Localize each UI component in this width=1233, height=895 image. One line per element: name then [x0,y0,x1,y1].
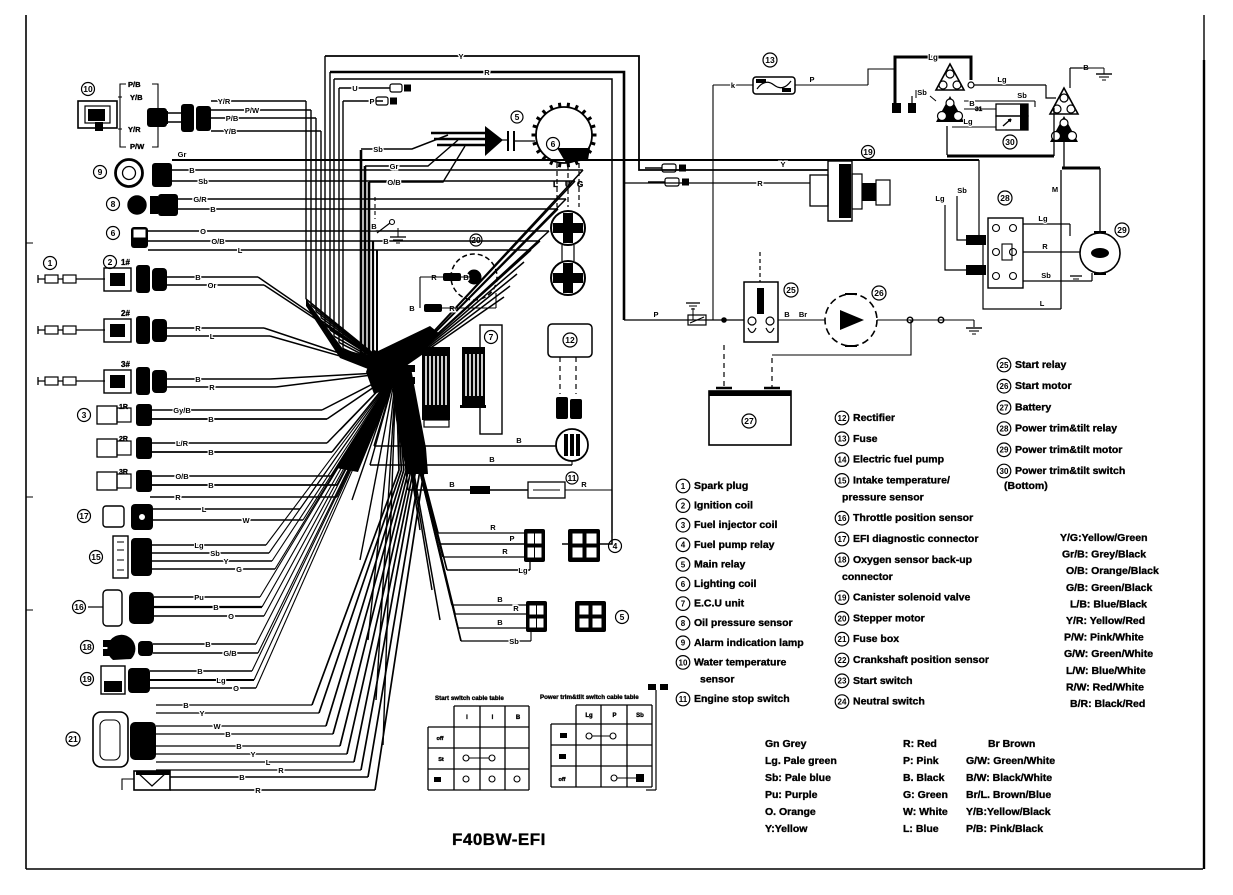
svg-text:18: 18 [838,556,847,565]
wire Lg 15 [152,372,396,550]
svg-text:Ignition coil: Ignition coil [694,500,753,512]
svg-text:Crankshaft position sensor: Crankshaft position sensor [853,654,989,666]
svg-text:P/W: P/W [245,106,260,115]
PTT switch triangle A [936,64,964,90]
harness filler wires [340,372,440,745]
wire relay to motor [778,310,825,320]
stop switch box (11) [396,372,612,533]
intake temperature/pressure sensor (15) [90,536,153,578]
wire Sb [916,88,1035,107]
svg-text:Gr: Gr [178,150,187,159]
svg-text:R: R [278,766,284,775]
relay4 wire Lg [396,372,530,575]
Lg terminals [892,96,916,113]
svg-text:11: 11 [568,473,577,483]
harness wires of coil 1# [258,277,396,372]
svg-text:3R: 3R [119,469,128,476]
svg-text:Br Brown: Br Brown [988,738,1035,750]
svg-text:Sb: Sb [198,177,208,186]
wire Sb 15 [152,372,396,558]
svg-text:E.C.U unit: E.C.U unit [694,598,745,610]
svg-text:Gr/B: Grey/Black: Gr/B: Grey/Black [1062,549,1146,561]
svg-text:R: R [1042,242,1048,251]
svg-text:P/W: P/W [130,142,145,151]
svg-text:12: 12 [565,335,575,345]
svg-text:18: 18 [82,642,92,652]
wire B to fuel pump [374,372,556,446]
svg-text:P: Pink: P: Pink [903,755,939,767]
svg-text:Br/L. Brown/Blue: Br/L. Brown/Blue [966,789,1051,801]
fuse box wire B y746 [156,370,409,751]
svg-text:G/B: G/B [223,649,237,658]
svg-text:L/R: L/R [176,439,189,448]
svg-text:Gn Grey: Gn Grey [765,738,807,750]
svg-text:P/B: Pink/Black: P/B: Pink/Black [966,823,1043,835]
svg-text:B/R: Black/Red: B/R: Black/Red [1070,698,1145,710]
svg-text:W: White: W: White [903,806,948,818]
injector wire B [152,481,337,490]
relay5 wire R [396,372,526,614]
rectifier output dashes [560,357,576,394]
svg-text:Lighting coil: Lighting coil [694,578,756,590]
svg-text:Y: Y [780,160,785,169]
battery (27) [709,345,791,445]
wire Y 15 [152,372,396,566]
fuse box wire R y770 [156,370,416,775]
svg-text:1: 1 [48,258,53,268]
injector harness wires [327,372,396,452]
fuse box wire W y726 [156,370,404,731]
engine stop switch symbol [371,197,406,246]
svg-text:B: B [197,667,203,676]
fuse box wire B y734 [156,370,406,739]
label R-B row [420,273,474,308]
svg-text:31: 31 [975,106,983,113]
svg-text:Stepper motor: Stepper motor [853,612,925,624]
harness wires of coil 3# [270,372,396,387]
svg-text:L: L [238,246,243,255]
relay5 wire B b [396,372,526,628]
diagnostic pin U [339,84,411,93]
svg-text:L: L [266,758,271,767]
svg-text:Gr: Gr [390,162,399,171]
svg-text:P: P [612,713,616,719]
svg-text:Sb: Sb [957,186,967,195]
injector label 3R [119,469,128,476]
svg-text:P/W: Pink/White: P/W: Pink/White [1064,632,1144,644]
svg-text:B: B [208,448,214,457]
harness knot [366,350,408,394]
wire motor to ground [877,317,982,334]
wire motor junction to battery [772,320,911,355]
svg-text:P/B: P/B [128,80,141,89]
svg-text:Y/R: Yellow/Red: Y/R: Yellow/Red [1066,615,1145,627]
svg-text:13: 13 [838,435,847,444]
svg-text:off: off [558,777,565,783]
svg-text:R: R [484,68,490,77]
svg-text:R: R [209,383,215,392]
wire Sb from lamp [172,177,575,372]
svg-text:B: B [516,715,521,721]
svg-text:30: 30 [1000,467,1009,476]
fuse box wire L y762 [156,370,413,767]
svg-text:O: O [228,612,234,621]
neutral switch (24) [646,684,668,790]
svg-text:O/B: O/B [211,237,225,246]
coil wire Or 1# [167,281,264,290]
svg-text:10: 10 [83,84,93,94]
svg-text:Sb: Sb [210,549,220,558]
thick Lg wire bracket [895,53,971,107]
canister solenoid valve (19) [810,146,890,222]
sensor (6) small [107,227,149,249]
svg-text:Engine stop switch: Engine stop switch [694,693,790,705]
svg-text:F40BW-EFI: F40BW-EFI [452,830,546,849]
svg-text:22: 22 [838,656,847,665]
EFI diagnostic pin B [648,178,689,186]
svg-text:I: I [466,715,468,721]
wire R to solenoid valve [624,179,810,188]
svg-text:Lg: Lg [585,713,593,719]
injector harness wires [322,372,396,419]
harness vertical bundle [306,56,396,372]
wire Y top run [325,52,828,170]
svg-text:5: 5 [681,560,686,569]
wire Gr to arrow [365,140,458,171]
svg-text:B: B [516,436,522,445]
wire B y671 [150,372,396,676]
svg-text:off: off [436,736,443,742]
svg-text:Lg: Lg [1038,214,1048,223]
svg-text:5: 5 [515,112,520,122]
power trim tilt switch cable table [540,694,652,787]
svg-text:G: G [236,565,242,574]
svg-text:Sb: Sb [917,88,927,97]
svg-text:Alarm indication lamp: Alarm indication lamp [694,637,804,649]
PTT switch triangle B black [936,96,964,122]
svg-text:Lg: Lg [935,194,945,203]
sensor y678 [81,666,151,694]
svg-text:15: 15 [838,476,847,485]
svg-text:B: B [195,375,201,384]
wires L U G from lighting coil [553,163,583,207]
arrow connector to lighting coil [485,126,503,156]
svg-text:B: B [208,481,214,490]
svg-text:B: B [189,166,195,175]
wire Sb into PTT relay [957,186,967,240]
power trim and tilt motor (29) [1070,223,1129,279]
sensor with round connector y515 [78,504,154,530]
harness wedge upper [306,299,396,380]
fuse box (21) [66,712,156,767]
svg-text:7: 7 [489,332,494,342]
svg-text:8: 8 [681,619,686,628]
svg-text:B: B [205,640,211,649]
svg-text:21: 21 [838,635,847,644]
wire Lg to PTT switch box [952,117,996,127]
capacitor and main relay label (5) [500,111,535,151]
start motor (26) [825,286,886,346]
svg-text:Y:Yellow: Y:Yellow [765,823,808,835]
svg-text:Water temperature: Water temperature [694,656,787,668]
svg-text:Start switch cable table: Start switch cable table [435,695,504,702]
svg-text:G/W: Green/White: G/W: Green/White [1064,648,1153,660]
EFI diagnostic pin A [645,164,686,172]
svg-text:Br: Br [799,310,807,319]
sensor (18) dome shaped [81,635,154,660]
svg-text:I: I [492,715,494,721]
svg-text:L: L [1040,299,1045,308]
svg-text:O: O [233,684,239,693]
svg-text:Or: Or [208,281,217,290]
svg-text:3#: 3# [121,360,130,369]
svg-text:G/W: Green/White: G/W: Green/White [966,755,1055,767]
svg-text:B: B [213,603,219,612]
svg-text:3: 3 [681,521,686,530]
start switch cable table [428,695,529,790]
svg-text:Spark plug: Spark plug [694,480,748,492]
svg-text:Y/B: Y/B [130,93,143,102]
diagnostic pin P [343,97,397,106]
svg-text:Power trim&tilt relay: Power trim&tilt relay [1015,423,1117,435]
coil wire B 1# [167,273,258,282]
svg-text:29: 29 [1117,225,1127,235]
svg-text:27: 27 [1000,403,1009,412]
svg-text:B: B [497,595,503,604]
svg-text:23: 23 [838,677,847,686]
svg-text:EFI diagnostic connector: EFI diagnostic connector [853,533,978,545]
svg-text:5: 5 [620,612,625,622]
svg-text:R: Red: R: Red [903,738,937,750]
spark plug / ignition coil 2# [38,309,167,344]
connector of water temperature sensor [168,104,211,132]
harness curtain filler wires [396,262,524,372]
svg-text:B: B [784,310,790,319]
injector wire Gy/B [152,406,322,415]
wire O/B [148,237,540,372]
fuel injector at y=480 [97,470,152,492]
svg-text:Lg: Lg [194,541,204,550]
svg-text:Lg: Lg [997,75,1007,84]
svg-text:13: 13 [765,55,775,65]
spark plug / ignition coil 1# [38,256,167,294]
svg-text:2#: 2# [121,309,130,318]
svg-text:G: Green: G: Green [903,789,948,801]
wire R single [150,372,396,502]
wire B 16 [154,372,396,612]
svg-text:R: R [490,523,496,532]
svg-text:Intake temperature/: Intake temperature/ [853,474,950,486]
power trim and tilt switch (30) [975,104,1028,149]
svg-text:7: 7 [681,599,686,608]
svg-text:P: P [509,534,514,543]
svg-text:M: M [1052,185,1058,194]
wire G 15 [152,372,396,574]
svg-text:R: R [175,493,181,502]
stator circle B [551,245,585,295]
injector wire L/R [152,439,327,448]
component list column 1 [676,479,803,706]
svg-text:Y: Y [199,709,204,718]
component list column 3 [997,358,1125,492]
svg-text:Sb: Sb [1041,271,1051,280]
svg-text:Oil pressure sensor: Oil pressure sensor [694,617,793,629]
svg-text:Sb: Sb [509,637,519,646]
svg-text:Main relay: Main relay [694,558,746,570]
svg-text:20: 20 [838,614,847,623]
component list column 2 [835,411,989,708]
svg-text:B: B [489,455,495,464]
svg-text:R: R [757,179,763,188]
svg-text:B: B [225,730,231,739]
svg-text:Y: Y [250,750,255,759]
svg-text:12: 12 [838,414,847,423]
svg-text:24: 24 [838,697,847,706]
svg-text:30: 30 [1005,137,1015,147]
sensor circle (13) [451,234,497,300]
wire Y/R from sensor 10 [211,97,306,106]
injector label 2R [119,436,128,443]
svg-text:B: B [449,480,455,489]
svg-text:19: 19 [838,593,847,602]
svg-text:B: B [208,415,214,424]
thick wire to PTT motor [1052,142,1100,309]
wire loop under PTT relay [983,245,1061,309]
relay4 wire R b [396,372,524,557]
wire Y/B from sensor 10 [211,127,321,136]
svg-text:Oxygen sensor back-up: Oxygen sensor back-up [853,554,972,566]
long wire Gr from lamp to trim relay [172,150,979,160]
svg-text:9: 9 [681,639,686,648]
svg-text:L: L [210,332,215,341]
svg-text:25: 25 [1000,361,1009,370]
svg-text:Y/G:Yellow/Green: Y/G:Yellow/Green [1060,532,1148,544]
svg-text:16: 16 [838,514,847,523]
svg-text:O/B: O/B [387,178,401,187]
svg-text:Neutral switch: Neutral switch [853,696,925,708]
svg-text:Lg. Pale green: Lg. Pale green [765,755,837,767]
svg-text:Y/B: Y/B [224,127,237,136]
svg-text:Fuse box: Fuse box [853,633,899,645]
svg-text:19: 19 [82,674,92,684]
crankshaft position sensor (22) [122,771,170,790]
svg-text:Sb: Pale blue: Sb: Pale blue [765,772,831,784]
wire Lg into PTT relay [935,194,966,270]
start circuit feed wire with fuse [624,303,744,325]
wire color legend right column [1060,532,1159,710]
fuel injector at y=447 [97,437,152,459]
svg-text:2: 2 [681,501,686,510]
wire L y509 [153,372,396,514]
svg-text:R: R [502,547,508,556]
fuel pump connector [556,397,582,419]
wire P top run to fuel pump relay [334,79,612,544]
wire W y520 [153,372,396,525]
svg-text:L: Blue: L: Blue [903,823,939,835]
bottom wire color legend [765,738,1055,835]
svg-text:2: 2 [108,257,113,267]
svg-text:Fuel injector coil: Fuel injector coil [694,519,778,531]
wire Sb to arrow [361,135,448,154]
svg-text:Canister solenoid valve: Canister solenoid valve [853,592,970,604]
svg-text:Lg: Lg [928,53,938,62]
injector wire B [152,448,332,457]
svg-text:R: R [255,786,261,795]
electric fuel pump (14) [556,429,588,461]
coil wire B 3# [167,375,270,384]
harness curtain merge wedge [376,326,440,374]
svg-text:Y/R: Y/R [128,125,141,134]
wire B from lamp [172,166,583,372]
svg-text:B: B [236,742,242,751]
svg-text:B. Black: B. Black [903,772,945,784]
svg-text:Lg: Lg [963,117,973,126]
svg-text:Fuse: Fuse [853,433,878,445]
svg-text:B: B [409,304,415,313]
svg-text:St: St [438,757,444,763]
wire B from oil pressure sensor [178,205,558,372]
svg-text:1#: 1# [121,258,130,267]
svg-text:Fuel pump relay: Fuel pump relay [694,539,775,551]
wire B fuel pump return [370,372,572,465]
svg-text:Sb: Sb [1017,91,1027,100]
svg-text:B: B [239,773,245,782]
injector wire O/B [152,472,332,481]
svg-text:10: 10 [679,658,688,667]
svg-text:28: 28 [1000,193,1010,203]
svg-text:28: 28 [1000,424,1009,433]
svg-text:6: 6 [681,580,686,589]
svg-text:P: P [809,75,814,84]
wire O/B to arrow [369,146,465,187]
wire L [148,246,531,372]
svg-text:1: 1 [681,482,686,491]
thick wires into arrow [431,133,488,145]
crank sensor wire R [170,372,424,795]
wire R top run [330,68,624,320]
svg-text:O/B: Orange/Black: O/B: Orange/Black [1066,565,1159,577]
svg-text:4: 4 [681,541,686,550]
wire B to PTT switch box [964,99,996,109]
svg-text:B: B [371,222,377,231]
wire Gr into PTT relay [978,160,980,240]
wire P/W from sensor 10 [211,106,311,115]
svg-text:O/B: O/B [175,472,189,481]
wire P/B from sensor 10 [211,114,316,123]
svg-text:Sb: Sb [373,145,383,154]
wire R relay to motor [1023,242,1080,252]
svg-text:Electric fuel pump: Electric fuel pump [853,454,944,466]
svg-text:29: 29 [1000,446,1009,455]
svg-text:R: R [513,604,519,613]
wire O y688 [150,372,396,693]
svg-text:O: O [200,227,206,236]
PTT switch triangle C [1050,88,1078,142]
svg-text:26: 26 [874,288,884,298]
fuse (13) with wires [713,53,895,320]
spark plug / ignition coil 3# [38,360,167,395]
harness bundle thick wires [361,150,396,372]
svg-text:R: R [195,324,201,333]
diagram title F40BW-EFI [452,830,546,849]
crank sensor wire B [170,372,420,782]
relay4 wire R a [396,372,524,533]
svg-text:L: L [202,505,207,514]
svg-text:21: 21 [68,734,78,744]
svg-text:P/B: P/B [226,114,239,123]
svg-text:1R: 1R [119,404,128,411]
svg-text:Y: Y [223,557,228,566]
